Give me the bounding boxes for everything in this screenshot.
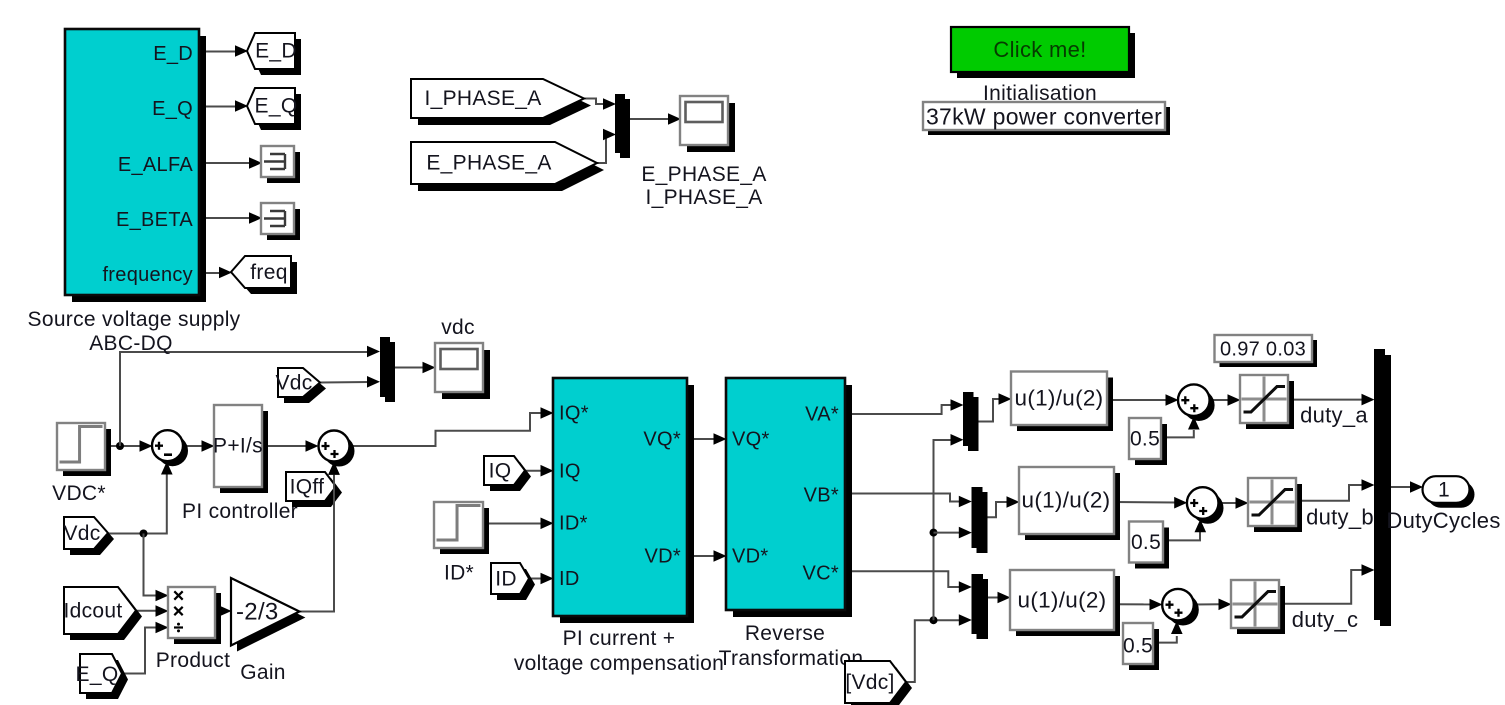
svg-text:1: 1	[1438, 479, 1450, 502]
wire source E_Q to goto E_Q	[199, 106, 238, 108]
wire output mux to outport DutyCycles	[1385, 486, 1412, 488]
fcn u(1)/u(2) c	[1016, 576, 1120, 636]
step source ID*	[440, 508, 489, 554]
svg-text:IQff: IQff	[290, 476, 325, 499]
svg-text:VA*: VA*	[805, 404, 839, 426]
saturation b	[1254, 484, 1302, 532]
svg-text:VB*: VB*	[804, 485, 839, 507]
svg-text:37kW power converter: 37kW power converter	[926, 104, 1162, 130]
PI controller block P+I/s	[220, 411, 268, 493]
wire PI controller to sum2	[262, 445, 308, 447]
sum b	[1192, 492, 1224, 524]
wire fcn a to sum a	[1107, 399, 1167, 401]
svg-text:0.5: 0.5	[1131, 531, 1161, 554]
svg-text:IQ: IQ	[489, 460, 512, 483]
svg-text:duty_c: duty_c	[1292, 607, 1359, 632]
saturation a	[1246, 381, 1294, 429]
svg-text:Idcout: Idcout	[63, 600, 122, 623]
svg-text:0.97 0.03: 0.97 0.03	[1220, 339, 1306, 361]
wire mux a to fcn u(1)/u(2) a	[974, 399, 1002, 422]
svg-text:P+I/s: P+I/s	[213, 435, 263, 458]
mux1 phase signals	[620, 99, 630, 158]
svg-text:DutyCycles: DutyCycles	[1386, 508, 1500, 533]
output mux DutyCycles	[1380, 355, 1391, 626]
svg-text:E_Q: E_Q	[152, 98, 193, 120]
wire Vdc tag to sum1 minus input and product branch	[108, 470, 167, 534]
goto tag freq	[237, 262, 297, 294]
wire vdc bus branch to mux b input 2	[930, 529, 938, 537]
wire saturation c to output mux	[1279, 570, 1364, 604]
wire vdc mux to scope vdc	[390, 367, 425, 369]
fcn u(1)/u(2) a	[1017, 378, 1113, 432]
scope vdc	[442, 350, 490, 399]
subsystem Reverse Transformation	[733, 385, 852, 617]
wire ID tag to PI current block	[529, 578, 543, 580]
svg-text:freq: freq	[250, 261, 287, 284]
wire IQ tag to PI current block IQ	[525, 470, 543, 472]
svg-text:E_PHASE_A: E_PHASE_A	[641, 163, 766, 186]
wire sum b to saturation b	[1219, 502, 1239, 504]
svg-text:VQ*: VQ*	[732, 429, 770, 451]
svg-text:ID: ID	[559, 568, 580, 590]
wire VD* PI current to Reverse Transformation	[687, 555, 716, 557]
wire Vdc tag to vdc mux input 2	[320, 381, 370, 384]
scope E_PHASE_A I_PHASE_A	[687, 103, 735, 152]
fcn u(1)/u(2) b	[1025, 473, 1120, 540]
wire sum2 to PI current block IQ*	[350, 413, 544, 446]
svg-text:E_Q: E_Q	[255, 95, 298, 118]
svg-text:vdc: vdc	[441, 316, 475, 339]
svg-text:Transformation: Transformation	[719, 647, 864, 670]
svg-text:ABC-DQ: ABC-DQ	[89, 332, 172, 355]
mux b	[977, 492, 988, 553]
sum a	[1183, 389, 1215, 421]
constant 0.97 0.03	[1220, 340, 1318, 367]
wire gain to sum2 bottom input	[299, 470, 334, 612]
svg-text:I_PHASE_A: I_PHASE_A	[645, 186, 762, 209]
svg-text:Source voltage supply: Source voltage supply	[28, 308, 241, 331]
svg-text:u(1)/u(2): u(1)/u(2)	[1022, 488, 1111, 513]
from tag [Vdc]	[851, 667, 912, 705]
wire constant 0.5 b to sum b	[1163, 532, 1200, 540]
wire from I_PHASE_A to mux1 input 1	[584, 99, 606, 105]
outport 1	[1428, 481, 1475, 508]
wire VB* to mux b	[845, 494, 961, 502]
step source VDC*	[63, 429, 111, 476]
wire source frequency to goto freq	[199, 272, 222, 274]
from tag I_PHASE_A	[418, 86, 591, 125]
wire sum a to saturation a	[1210, 399, 1231, 401]
from tag E_Q lower	[86, 660, 128, 699]
svg-text:VC*: VC*	[803, 563, 839, 585]
terminator E_BETA	[267, 209, 300, 240]
svg-text:I_PHASE_A: I_PHASE_A	[424, 87, 541, 110]
svg-text:E_Q: E_Q	[76, 663, 119, 686]
svg-text:ID*: ID*	[444, 562, 474, 585]
wire constant 0.5 a to sum a	[1161, 430, 1194, 437]
svg-text:PI controller: PI controller	[182, 500, 298, 523]
wire constant 0.5 c to sum c	[1153, 636, 1177, 643]
wire E_Q tag to product input 3	[122, 628, 158, 674]
sum1 plus minus	[157, 435, 188, 466]
svg-text:VQ*: VQ*	[643, 429, 681, 451]
subsystem PI current + voltage compensation	[560, 385, 694, 623]
wire fcn c to sum c	[1114, 603, 1152, 605]
annotation 37kW power converter	[928, 107, 1170, 135]
from tag Vdc left	[70, 523, 114, 555]
svg-text:0.5: 0.5	[1130, 428, 1160, 451]
wire mux b to fcn u(1)/u(2) b	[983, 502, 1010, 517]
svg-text:[Vdc]: [Vdc]	[845, 671, 894, 694]
wire sum c to saturation c	[1194, 603, 1221, 605]
svg-text:Click me!: Click me!	[993, 37, 1086, 62]
from tag IQff	[292, 478, 342, 507]
from tag Idcout	[70, 593, 142, 640]
wire [Vdc] tag to vertical bus and mux c input 2	[906, 620, 961, 682]
svg-text:Vdc: Vdc	[275, 372, 312, 395]
wire from E_PHASE_A to mux1 input 2	[597, 135, 608, 164]
mux vdc	[385, 342, 395, 402]
svg-text:VD*: VD*	[645, 546, 681, 568]
wire source E_BETA to terminator 2	[199, 217, 252, 219]
svg-text:0.5: 0.5	[1123, 635, 1153, 658]
constant 0.5 c	[1129, 629, 1159, 670]
from tag Vdc upper	[284, 374, 326, 403]
svg-text:PI current +: PI current +	[563, 627, 676, 650]
wire Idcout to product input 2	[136, 610, 158, 612]
svg-text:ID*: ID*	[559, 513, 588, 535]
from tag IQ	[490, 462, 531, 491]
sum2 plus plus	[324, 436, 355, 467]
svg-text:voltage compensation: voltage compensation	[514, 652, 724, 675]
svg-text:u(1)/u(2): u(1)/u(2)	[1018, 588, 1107, 613]
mux c	[977, 579, 989, 639]
terminator E_ALFA	[267, 152, 300, 183]
svg-text:Gain: Gain	[240, 661, 286, 684]
svg-text:frequency: frequency	[102, 264, 193, 286]
wire source E_ALFA to terminator 1	[199, 162, 252, 164]
svg-text:VDC*: VDC*	[52, 482, 106, 505]
svg-text:-2/3: -2/3	[236, 599, 279, 626]
svg-text:VD*: VD*	[732, 546, 768, 568]
wire vdc bus up to mux a input 2	[934, 440, 954, 620]
wire saturation b to output mux	[1296, 485, 1364, 501]
wire mux c to fcn u(1)/u(2) c	[983, 597, 1000, 599]
wire ID* block to PI current block	[483, 523, 543, 525]
svg-text:ID: ID	[495, 568, 517, 591]
wire mux1 to scope E/I phase A	[625, 118, 670, 120]
constant 0.5 a	[1135, 424, 1167, 465]
svg-text:Vdc: Vdc	[63, 522, 100, 545]
svg-text:E_D: E_D	[255, 40, 297, 63]
wire gain to sum2 overlay above IQff	[333, 470, 335, 505]
wire fcn b to sum b	[1114, 501, 1176, 504]
wire VQ* PI current to Reverse Transformation	[687, 438, 716, 440]
wire junction up to vdc mux input 1	[120, 352, 370, 446]
mux a	[968, 397, 979, 451]
svg-text:Product: Product	[156, 649, 230, 672]
svg-text:E_ALFA: E_ALFA	[118, 154, 194, 176]
sum c	[1167, 594, 1199, 626]
svg-text:IQ*: IQ*	[559, 403, 589, 425]
saturation c	[1237, 586, 1285, 634]
svg-text:E_BETA: E_BETA	[116, 209, 193, 231]
gain -2/3 triangle	[237, 584, 305, 652]
wire VA* to mux a	[845, 405, 953, 414]
wire sum1 to PI controller	[183, 445, 204, 447]
svg-text:duty_b: duty_b	[1306, 505, 1374, 530]
svg-text:E_D: E_D	[153, 43, 193, 65]
wire VDC* to sum1 with junction	[105, 445, 142, 447]
wire saturation a to output mux	[1288, 399, 1364, 401]
from tag E_PHASE_A	[418, 149, 604, 191]
from tag ID	[497, 569, 535, 600]
product block	[174, 593, 221, 644]
wire source E_D to goto E_D	[199, 51, 238, 53]
wire VC* to mux c	[845, 571, 961, 587]
svg-text:duty_a: duty_a	[1300, 403, 1368, 428]
constant 0.5 b	[1135, 528, 1169, 569]
goto tag E_Q	[253, 94, 301, 130]
svg-text:u(1)/u(2): u(1)/u(2)	[1015, 386, 1104, 411]
goto tag E_D	[253, 39, 301, 75]
button Click me!	[957, 33, 1135, 78]
svg-text:Reverse: Reverse	[745, 622, 825, 645]
subsystem Source voltage supply ABC-DQ	[72, 36, 206, 302]
wire product to gain	[215, 610, 221, 612]
svg-text:IQ: IQ	[559, 461, 581, 483]
svg-text:E_PHASE_A: E_PHASE_A	[426, 152, 551, 175]
